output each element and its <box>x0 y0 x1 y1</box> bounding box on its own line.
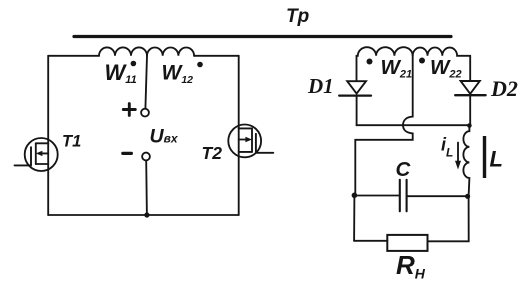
polarity dot W11 <box>131 61 137 67</box>
inductor L coil <box>463 126 469 197</box>
svg-text:D2: D2 <box>490 76 518 101</box>
winding W12 <box>147 48 194 56</box>
minus sign <box>123 152 132 155</box>
wire: primary loop left vertical <box>47 56 49 215</box>
junction right of C <box>465 194 470 199</box>
diode D2 <box>455 56 485 126</box>
svg-text:T1: T1 <box>62 133 81 151</box>
resistor RH <box>387 235 427 251</box>
wire: secondary centre tap with hop over rail <box>355 56 412 196</box>
svg-text:T2: T2 <box>202 143 223 163</box>
inductor L core bar <box>483 136 486 178</box>
diode D1 <box>339 81 371 125</box>
winding W11 <box>99 47 147 55</box>
wire: primary top rail right segment <box>194 55 239 57</box>
current arrow iL <box>455 143 461 170</box>
node - terminal circle <box>142 153 150 161</box>
polarity dot W21 <box>367 59 373 65</box>
node + terminal circle <box>141 109 149 117</box>
wire: primary top rail left segment <box>48 55 99 57</box>
wire: primary loop bottom rail <box>48 214 239 216</box>
transistor T1 <box>15 138 58 171</box>
wire: primary loop right vertical <box>238 56 240 215</box>
polarity dot W12 <box>197 62 203 68</box>
junction at rectifier output <box>467 123 472 128</box>
plus sign <box>123 104 135 116</box>
transformer core <box>74 35 451 38</box>
junction left of C <box>352 193 358 199</box>
polarity dot W22 <box>419 58 425 64</box>
wire: output left vertical lower part <box>353 195 355 241</box>
winding W22 <box>413 48 471 56</box>
wire: - terminal down to bottom rail <box>145 161 148 216</box>
svg-text:Tp: Tp <box>286 6 309 27</box>
svg-text:D1: D1 <box>307 74 334 98</box>
secondary top rail / winding W21 <box>357 47 413 56</box>
svg-text:C: C <box>396 158 412 181</box>
wire: bottom loop with RH <box>354 196 469 241</box>
transistor T2 <box>228 124 273 157</box>
wire: secondary left drop to D1 <box>356 56 358 81</box>
junction on bottom rail <box>144 212 149 217</box>
svg-text:L: L <box>490 146 503 171</box>
wire: cathode rail D1-D2 <box>357 124 470 126</box>
wire: primary centre tap down to + terminal <box>145 56 147 109</box>
capacitor C <box>354 180 467 212</box>
